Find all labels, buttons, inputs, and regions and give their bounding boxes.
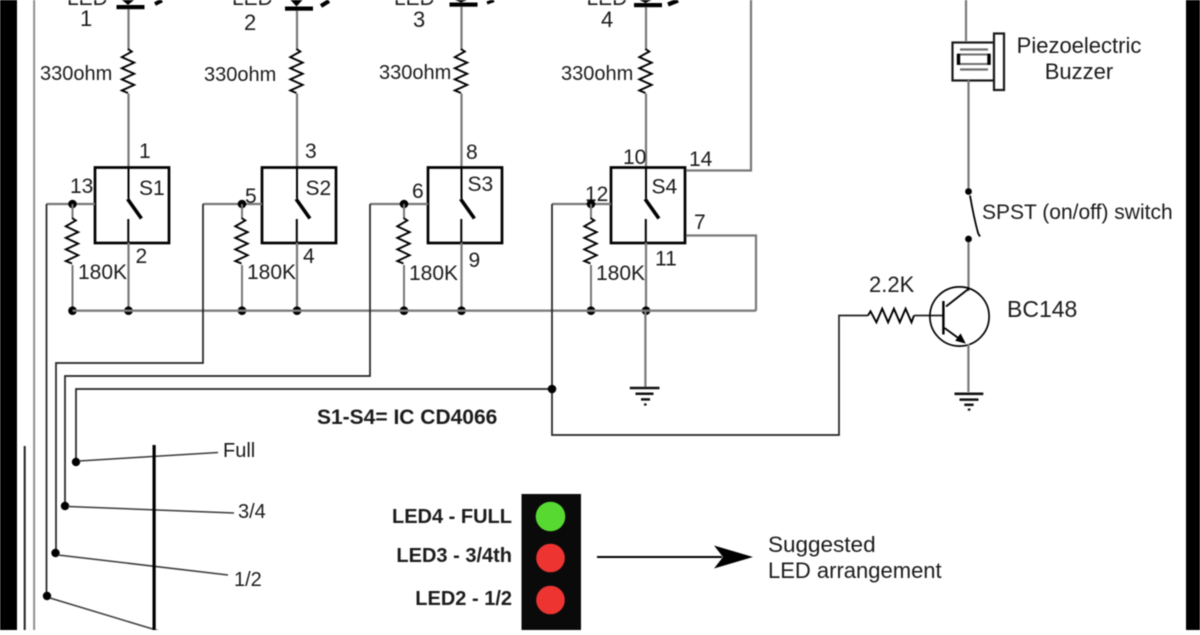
svg-text:S2: S2	[306, 177, 332, 200]
svg-text:3: 3	[305, 140, 317, 163]
SPST on/off switch SW1	[965, 188, 980, 242]
wire resistor to switch S4 pin	[645, 94, 647, 168]
svg-text:330ohm: 330ohm	[40, 63, 112, 85]
LED4 light-emission arrow fragment	[668, 1, 678, 5]
analog switch S1 (CD4066 section)	[95, 168, 169, 244]
wire Empty probe lead (cut at bottom)	[50, 598, 166, 633]
wire resistor to switch S2 pin	[296, 94, 298, 168]
wire switch S1 control input	[47, 203, 96, 205]
pin label 3	[305, 140, 317, 163]
wire 3/4 probe lead	[68, 507, 234, 514]
svg-text:S1-S4= IC CD4066: S1-S4= IC CD4066	[317, 406, 497, 429]
node bus junction below S1 output	[124, 306, 133, 315]
pin label 13	[70, 175, 93, 198]
label Suggested LED arrangement	[768, 532, 942, 583]
resistor 330ohm (LED4)	[561, 49, 652, 93]
label LED3 - 3/4th	[396, 545, 512, 567]
analog switch S2 (CD4066 section)	[262, 168, 336, 244]
node bus junction below S3 output	[457, 306, 466, 315]
suggested arrangement arrow	[597, 546, 753, 569]
wire 1/2 probe lead	[58, 555, 228, 575]
svg-text:S3: S3	[468, 173, 494, 196]
node Full probe	[72, 458, 80, 466]
node junction Full tap on transistor feed	[548, 385, 557, 394]
pin label 2	[136, 245, 148, 268]
wire S3 control to 3/4 probe	[65, 204, 370, 506]
wire switch S2 control input	[203, 203, 262, 205]
svg-text:LED: LED	[232, 0, 273, 10]
wire switch to transistor collector	[967, 242, 969, 291]
svg-text:10: 10	[623, 146, 646, 169]
wire switch S4 control input	[552, 203, 611, 205]
label LED2 - 1/2	[415, 588, 512, 610]
svg-text:330ohm: 330ohm	[379, 62, 451, 84]
resistor 180K (S3)	[397, 204, 458, 311]
svg-text:2: 2	[136, 245, 148, 268]
LED LED4 (partially cut at top)	[587, 0, 663, 32]
LED LED2 (partially cut at top)	[232, 0, 313, 35]
svg-text:330ohm: 330ohm	[561, 63, 633, 85]
wire Full probe lead	[79, 453, 218, 462]
wire LED4 cathode to resistor	[645, 7, 647, 51]
wire buzzer to switch	[967, 80, 969, 188]
pin label 5	[245, 185, 257, 208]
transistor Q1 BC148 (NPN)	[930, 287, 989, 346]
svg-text:Buzzer: Buzzer	[1045, 59, 1113, 84]
svg-text:180K: 180K	[78, 261, 127, 284]
pin label 8	[466, 141, 478, 164]
resistor 180K (S4)	[584, 204, 645, 311]
pin label 12	[585, 183, 608, 206]
svg-text:S4: S4	[652, 176, 678, 199]
LED LED1 (partially cut at top)	[67, 0, 145, 31]
wire S4 pin 14 to supply (cut at top)	[686, 0, 751, 171]
svg-text:LED2 - 1/2: LED2 - 1/2	[415, 588, 512, 610]
wire LED3 cathode to resistor	[460, 7, 462, 51]
svg-text:1: 1	[80, 6, 92, 31]
svg-text:Full: Full	[223, 440, 255, 462]
LED2 light-emission arrow fragment	[321, 1, 329, 6]
pin label 4	[303, 245, 315, 268]
svg-text:180K: 180K	[409, 262, 458, 285]
svg-text:330ohm: 330ohm	[204, 64, 276, 86]
node bus junction below 180K (S4)	[587, 306, 596, 315]
pin label 9	[469, 249, 481, 272]
LED2 indicator (red)	[536, 586, 565, 615]
LED3 light-emission arrow fragment	[487, 1, 494, 4]
wire S4 pin 7 to bus	[686, 236, 756, 311]
svg-text:Piezoelectric: Piezoelectric	[1017, 33, 1142, 58]
LED LED3 (partially cut at top)	[394, 0, 478, 32]
svg-text:180K: 180K	[596, 262, 645, 285]
piezoelectric buzzer BZ1	[953, 34, 1005, 91]
svg-text:8: 8	[466, 141, 478, 164]
svg-text:2: 2	[244, 10, 256, 35]
node junction at S1 control	[68, 200, 77, 209]
wire Full probe tap	[76, 389, 552, 462]
svg-text:7: 7	[694, 211, 706, 234]
svg-text:SPST (on/off) switch: SPST (on/off) switch	[982, 201, 1173, 224]
LED3 indicator (red)	[536, 544, 565, 573]
node bus junction below S4 output	[642, 306, 651, 315]
wire switch S2 output to bus	[296, 243, 298, 311]
svg-text:Suggested: Suggested	[768, 532, 876, 557]
svg-text:4: 4	[601, 7, 613, 32]
node junction at S4 control	[587, 200, 596, 209]
svg-text:BC148: BC148	[1007, 296, 1077, 322]
svg-text:9: 9	[469, 249, 481, 272]
svg-text:14: 14	[689, 148, 713, 171]
resistor 2.2K	[868, 272, 915, 322]
resistor 330ohm (LED3)	[379, 49, 467, 93]
node 1/2 probe	[51, 549, 59, 557]
node junction at S3 control	[400, 200, 409, 209]
wire 2.2K to base	[914, 315, 943, 317]
svg-text:6: 6	[412, 180, 424, 203]
pin label 11	[655, 248, 677, 271]
resistor 180K (S1)	[66, 204, 127, 311]
wire LED2 cathode to resistor	[296, 11, 298, 51]
svg-text:S1: S1	[139, 177, 165, 200]
probe rod bar	[153, 445, 156, 630]
node 3/4 probe	[61, 502, 69, 510]
analog switch S3 (CD4066 section)	[428, 168, 502, 244]
wire common probe (cut at bottom)	[24, 446, 26, 630]
analog switch S4 (CD4066 section)	[611, 168, 685, 244]
wire switch S3 control input	[370, 203, 428, 205]
node bus junction below 180K (S3)	[400, 306, 409, 315]
wire emitter to ground	[967, 344, 969, 392]
wire S4 control down to transistor feed	[552, 204, 868, 435]
svg-text:11: 11	[655, 248, 677, 271]
pin label 1	[139, 140, 151, 163]
svg-text:3/4: 3/4	[238, 501, 266, 523]
label SPST (on/off) switch	[982, 201, 1173, 224]
LED4 indicator (green)	[536, 502, 566, 532]
wire switch S1 output to bus	[127, 243, 129, 311]
label S1-S4= IC CD4066	[317, 406, 497, 429]
svg-text:1: 1	[139, 140, 151, 163]
svg-text:180K: 180K	[247, 261, 296, 284]
node 3/4 level label	[238, 501, 266, 523]
svg-text:LED4 - FULL: LED4 - FULL	[392, 506, 512, 528]
wire resistor to switch S1 pin	[127, 94, 129, 168]
label LED4 - FULL	[392, 506, 512, 528]
node 1/2 level label	[234, 569, 262, 591]
node bus junction below 180K (S2)	[238, 306, 247, 315]
pin label 14	[689, 148, 713, 171]
wire LED1 cathode to resistor	[127, 9, 129, 51]
svg-text:LED arrangement: LED arrangement	[768, 558, 942, 583]
resistor 330ohm (LED1)	[40, 49, 134, 93]
label BC148	[1007, 296, 1077, 322]
node bus junction below S2 output	[293, 306, 302, 315]
resistor 330ohm (LED2)	[204, 49, 303, 93]
svg-text:2.2K: 2.2K	[869, 272, 915, 297]
resistor 180K (S2)	[235, 204, 296, 311]
svg-text:13: 13	[70, 175, 93, 198]
pin label 7	[694, 211, 706, 234]
LED display panel	[522, 494, 582, 630]
wire switch S3 output to bus	[460, 243, 462, 311]
svg-text:3: 3	[413, 7, 425, 32]
svg-text:LED3 - 3/4th: LED3 - 3/4th	[396, 545, 512, 567]
LED1 light-emission arrow fragment	[155, 1, 162, 5]
node Full level label	[223, 440, 255, 462]
wire supply to buzzer (cut at top)	[965, 0, 967, 41]
node Empty probe	[43, 592, 51, 600]
wire ground bus	[73, 310, 757, 312]
label Piezoelectric Buzzer	[1017, 33, 1142, 84]
ground (bus, below S4)	[630, 311, 660, 405]
svg-text:1/2: 1/2	[234, 569, 262, 591]
pin label 6	[412, 180, 424, 203]
wire S2 control to 1/2 probe	[56, 204, 203, 553]
ground (emitter)	[955, 394, 984, 410]
node bus junction below 180K (S1)	[68, 306, 77, 315]
svg-text:4: 4	[303, 245, 315, 268]
wire resistor to switch S3 pin	[460, 94, 462, 168]
pin label 10	[623, 146, 646, 169]
node junction at S2 control	[238, 200, 247, 209]
wire switch S4 output to bus	[645, 243, 647, 311]
wire S1 control to Empty probe	[46, 204, 48, 596]
